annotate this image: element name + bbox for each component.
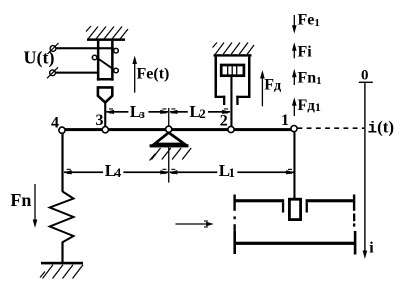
wire (top lead to coil) (56, 47, 115, 49)
force arrow Fe1 (down) (293, 15, 295, 31)
damper cylinder (215, 57, 218, 98)
force arrow Fe(t) (134, 58, 136, 93)
svg-text:0: 0 (361, 68, 369, 84)
label L4 (104, 163, 124, 179)
rod from armature to node 3 (104, 102, 106, 127)
svg-text:1: 1 (281, 112, 289, 129)
force arrow Fd (damper) (261, 73, 263, 107)
terminal bottom (50, 70, 56, 76)
svg-text:4: 4 (51, 115, 59, 132)
ceiling line (electromagnet support) (87, 38, 125, 41)
bottom plate (235, 242, 356, 245)
axis line (364, 82, 365, 254)
centre dash-dot right (353, 214, 355, 222)
spring Fn (50, 192, 74, 243)
force arrow Fi (up) (293, 45, 295, 58)
label L2 (189, 104, 209, 120)
coil winding diagonal (98, 59, 115, 71)
spring upper rod (61, 133, 63, 192)
ground line (spring anchor) (41, 262, 83, 265)
dimension line L4/L1 (64, 171, 103, 173)
svg-text:Fд: Fд (264, 77, 281, 94)
svg-text:U(t): U(t) (24, 48, 55, 69)
label L1 (218, 163, 238, 179)
svg-text:i(t): i(t) (368, 118, 395, 138)
force arrow Fn (34, 184, 36, 223)
bottom right cap (354, 231, 357, 255)
ceiling line (damper support) (214, 54, 252, 56)
fulcrum centre line (168, 108, 169, 183)
core (moving mass) (289, 199, 300, 219)
dashed line from node 1 to axis (298, 127, 365, 129)
ground hatching (40, 265, 83, 279)
top right cap (353, 195, 355, 211)
centre dash-dot left (234, 216, 236, 219)
beam (lever) (62, 128, 294, 131)
svg-text:Fn: Fn (10, 190, 31, 210)
fulcrum hatching (150, 148, 192, 161)
motion arrow (right) (176, 223, 207, 225)
node 1 (291, 126, 297, 132)
svg-text:i: i (369, 240, 374, 257)
coil loop right-bottom (114, 68, 119, 73)
piston rod to node 2 (230, 76, 232, 127)
gap tick right (306, 202, 308, 212)
axis origin tick (359, 82, 373, 83)
rod from node 1 to core (293, 132, 295, 199)
node 3 (102, 127, 108, 133)
gap tick left (282, 202, 284, 212)
svg-text:3: 3 (96, 112, 104, 129)
node 2 (228, 126, 234, 132)
force arrow Fd1 (up) (293, 100, 295, 116)
svg-text:Fe(t): Fe(t) (137, 66, 170, 83)
top plate left segment (235, 199, 285, 202)
label L3 (129, 104, 149, 120)
coil loop right-top (114, 48, 119, 53)
bottom left cap (233, 231, 236, 254)
wire (bottom lead to coil) (55, 72, 98, 74)
moving-mass frame: top left cap (233, 195, 235, 211)
fulcrum triangle (154, 133, 184, 144)
top plate right segment (306, 199, 354, 202)
fulcrum pivot node (166, 126, 172, 132)
damper piston (221, 65, 244, 76)
armature (plunger funnel) (98, 87, 112, 102)
force arrow Fn1 (up) (293, 72, 295, 86)
coil loop left (92, 55, 97, 60)
svg-text:Fi: Fi (298, 44, 313, 61)
node 4 (59, 127, 65, 133)
ceiling hatching (damper support) (213, 43, 255, 55)
svg-text:2: 2 (220, 112, 228, 129)
fulcrum base (150, 144, 189, 147)
spring lower rod (61, 242, 63, 262)
terminal top (50, 46, 56, 52)
ceiling hatching (electromagnet support) (86, 26, 128, 39)
electromagnet core/box (97, 41, 100, 81)
dimension line L3/L2 (106, 111, 128, 113)
svg-text:Fд1: Fд1 (298, 97, 321, 114)
